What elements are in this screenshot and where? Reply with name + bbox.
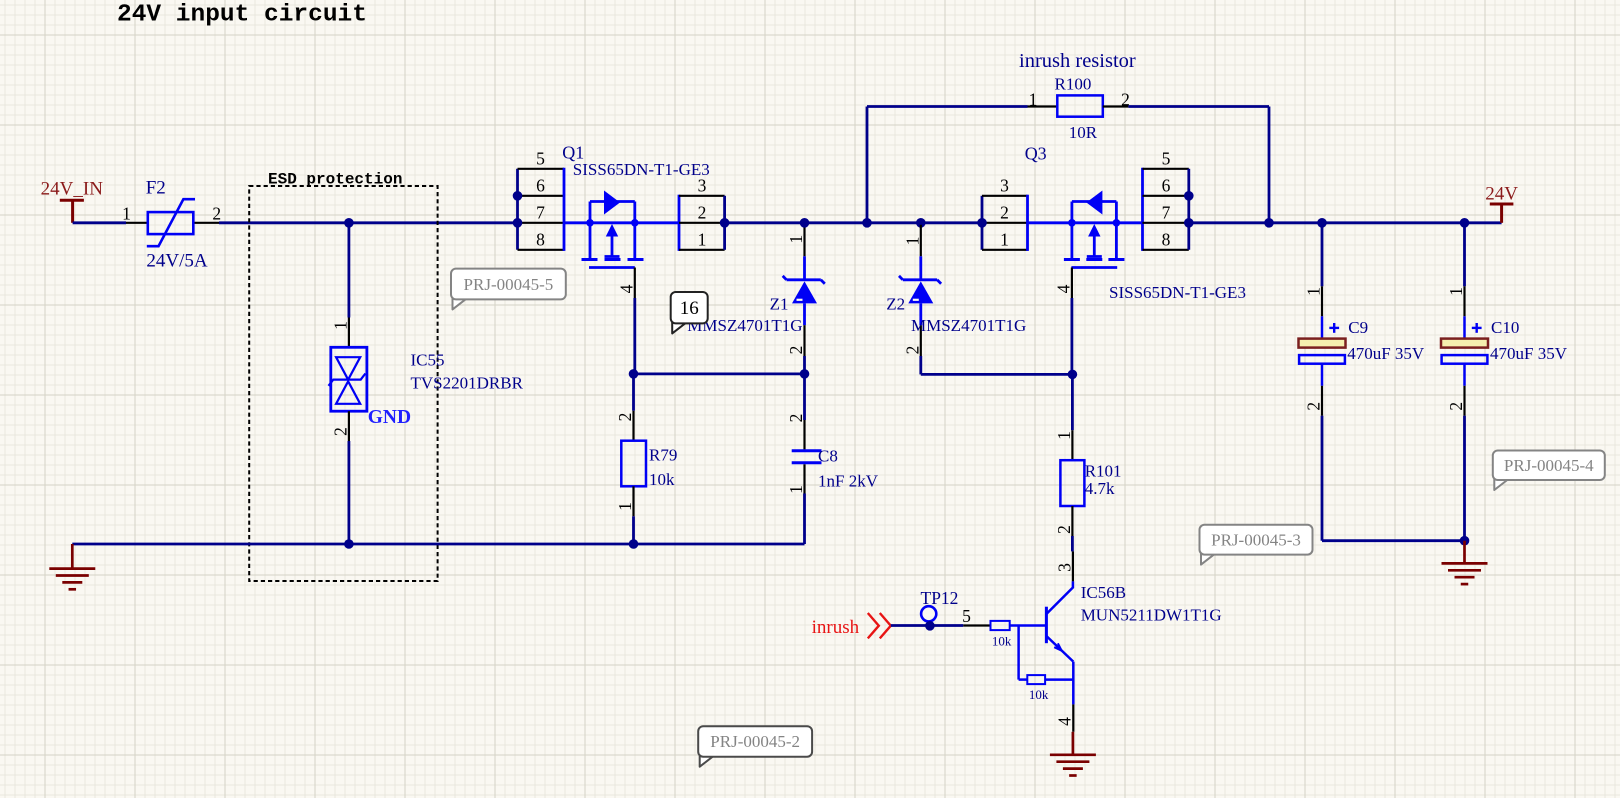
svg-text:IC55: IC55 [411, 350, 445, 369]
positive plate [1321, 316, 1324, 338]
svg-text:inrush resistor: inrush resistor [1019, 50, 1136, 72]
resistor body [1060, 460, 1084, 506]
wire [73, 221, 126, 224]
svg-text:6: 6 [1162, 176, 1171, 196]
pin 2 [1463, 364, 1466, 386]
svg-text:2: 2 [1304, 402, 1324, 411]
svg-text:1: 1 [1054, 431, 1074, 440]
pin 1 [1071, 430, 1073, 460]
anode triangle [908, 281, 933, 303]
port inrush [812, 613, 891, 638]
callout PRJ-00045-5 [451, 269, 566, 310]
svg-text:SISS65DN-T1-GE3: SISS65DN-T1-GE3 [1109, 283, 1246, 302]
wire [1322, 539, 1465, 542]
svg-text:2: 2 [698, 203, 707, 223]
svg-text:24V input circuit: 24V input circuit [117, 2, 367, 29]
pin 4 (emitter) [1072, 704, 1074, 731]
wire [1128, 105, 1269, 108]
svg-text:1: 1 [1446, 287, 1466, 296]
junction [800, 369, 810, 379]
ground [49, 544, 95, 589]
wire [72, 543, 804, 546]
svg-text:Q3: Q3 [1025, 143, 1047, 163]
junction [344, 218, 354, 228]
resistor 10k (base) [963, 621, 1046, 630]
pin 6 [1143, 195, 1189, 197]
svg-text:3: 3 [1054, 563, 1074, 572]
callout PRJ-00045-3 [1200, 525, 1313, 565]
pin 5 [1143, 168, 1189, 170]
svg-text:10k: 10k [649, 470, 675, 489]
svg-text:5: 5 [536, 149, 545, 169]
svg-text:MMSZ4701T1G: MMSZ4701T1G [911, 316, 1026, 335]
svg-text:4: 4 [616, 284, 636, 293]
svg-text:2: 2 [212, 203, 221, 223]
collector/base/emitter [1046, 581, 1073, 614]
junction [1460, 536, 1470, 546]
svg-text:5: 5 [1162, 149, 1171, 169]
capacitor C10 [1441, 223, 1488, 416]
junction [629, 369, 639, 379]
junction [344, 539, 354, 549]
svg-text:10k: 10k [1029, 687, 1049, 702]
pin 2 [1071, 506, 1073, 536]
svg-text:16: 16 [680, 298, 699, 319]
pin 2 [982, 222, 1028, 224]
pin 3 (collector) [1072, 551, 1074, 581]
pin 4 (gate) [634, 268, 636, 299]
svg-text:TVS2201DRBR: TVS2201DRBR [411, 374, 524, 393]
transistor Q3 [977, 149, 1193, 299]
svg-text:5: 5 [962, 606, 971, 626]
wire [803, 374, 806, 420]
junction [800, 218, 810, 228]
wire [632, 516, 635, 544]
svg-text:1: 1 [902, 237, 922, 246]
wire [1463, 416, 1466, 541]
svg-text:PRJ-00045-4: PRJ-00045-4 [1504, 456, 1594, 475]
resistor R79 [615, 411, 646, 517]
pin 1 [803, 225, 805, 256]
svg-text:7: 7 [536, 203, 545, 223]
pin 2 [348, 411, 350, 441]
svg-text:IC56B: IC56B [1081, 583, 1126, 602]
svg-text:SISS65DN-T1-GE3: SISS65DN-T1-GE3 [573, 160, 710, 179]
plus mark [1329, 327, 1339, 329]
svg-text:ESD protection: ESD protection [268, 171, 402, 189]
plus mark [1472, 327, 1482, 329]
svg-text:PRJ-00045-5: PRJ-00045-5 [464, 275, 554, 294]
svg-text:C9: C9 [1348, 318, 1368, 337]
svg-text:TP12: TP12 [921, 588, 959, 608]
pin 2 [1321, 364, 1324, 386]
ground [1442, 541, 1488, 584]
svg-text:4: 4 [1054, 717, 1074, 726]
port 24V_IN [41, 179, 104, 223]
wire [347, 441, 350, 544]
svg-text:C8: C8 [818, 447, 838, 466]
pin 3 [982, 195, 1028, 197]
resistor 10k (base-emitter) [1019, 626, 1073, 685]
svg-text:2: 2 [615, 413, 635, 422]
svg-text:4: 4 [1053, 284, 1073, 293]
wire [803, 494, 806, 545]
transistor IC56B [1046, 551, 1074, 731]
wire [632, 374, 635, 411]
wire [919, 356, 922, 374]
negative plate [1299, 355, 1345, 364]
junction [1264, 218, 1274, 228]
pin 3 [679, 195, 725, 197]
wire [1321, 416, 1324, 541]
svg-text:24V: 24V [1485, 184, 1518, 205]
resistor body [621, 441, 646, 487]
callout PRJ-00045-4 [1493, 451, 1605, 491]
svg-text:R100: R100 [1055, 75, 1092, 94]
svg-text:1: 1 [1000, 230, 1009, 250]
wire [1268, 107, 1271, 223]
resistor R100 [1028, 95, 1129, 116]
wire [867, 105, 1028, 108]
positive plate [1463, 316, 1466, 338]
svg-text:2: 2 [1446, 402, 1466, 411]
callout PRJ-00045-2 [698, 726, 812, 767]
pin 2 [919, 303, 922, 325]
svg-text:2: 2 [1054, 525, 1074, 534]
capacitor C8 [786, 414, 822, 494]
diode Z1 [783, 225, 825, 356]
svg-text:10k: 10k [992, 634, 1012, 649]
svg-text:1: 1 [698, 230, 707, 250]
pin 2 [679, 222, 725, 224]
diode Z2 [899, 225, 941, 356]
svg-text:R79: R79 [649, 446, 677, 465]
junction [1317, 218, 1327, 228]
svg-text:10R: 10R [1069, 123, 1098, 142]
pin 2 [632, 411, 634, 441]
pin 2 [803, 303, 806, 325]
svg-text:8: 8 [536, 230, 545, 250]
pin 4 (gate) [1071, 268, 1073, 299]
svg-text:2: 2 [902, 346, 922, 355]
TVS diode IC55 [329, 318, 367, 442]
cathode bar [803, 256, 806, 281]
svg-text:3: 3 [1000, 176, 1009, 196]
pin 1 [632, 486, 634, 516]
svg-text:PRJ-00045-3: PRJ-00045-3 [1211, 530, 1301, 549]
resistor R101 [1054, 430, 1085, 536]
svg-text:F2: F2 [146, 177, 166, 198]
pin 1 [679, 249, 725, 251]
anode triangle [792, 281, 817, 303]
svg-text:24V/5A: 24V/5A [146, 251, 208, 272]
wire [866, 107, 869, 223]
svg-text:2: 2 [786, 346, 806, 355]
wire [1071, 298, 1074, 374]
svg-text:1: 1 [615, 502, 635, 511]
svg-text:MUN5211DW1T1G: MUN5211DW1T1G [1081, 606, 1222, 625]
pin 8 [518, 249, 565, 251]
svg-text:1: 1 [786, 235, 806, 244]
svg-text:PRJ-00045-2: PRJ-00045-2 [710, 732, 800, 751]
negative plate [1442, 355, 1488, 364]
wire [803, 356, 806, 374]
svg-text:1: 1 [786, 485, 806, 494]
wire [1189, 221, 1502, 224]
svg-text:2: 2 [330, 427, 350, 436]
svg-text:470uF 35V: 470uF 35V [1347, 344, 1425, 363]
svg-text:1: 1 [122, 203, 131, 223]
svg-text:4.7k: 4.7k [1085, 479, 1115, 498]
pin 8 [1143, 249, 1189, 251]
svg-text:24V_IN: 24V_IN [41, 179, 104, 200]
pin 1 [348, 318, 350, 348]
junction [862, 218, 872, 228]
junction [916, 218, 926, 228]
pin 1 [982, 249, 1028, 251]
wire [1463, 223, 1466, 286]
svg-text:C10: C10 [1491, 318, 1519, 337]
svg-text:6: 6 [536, 176, 545, 196]
pin 7 [518, 222, 565, 224]
svg-text:R101: R101 [1085, 462, 1122, 481]
pin 1 [920, 225, 922, 256]
TVS body [331, 347, 367, 411]
pin 1 [1321, 286, 1323, 316]
svg-text:Z2: Z2 [886, 295, 905, 314]
svg-text:2: 2 [786, 414, 806, 423]
wire [725, 221, 982, 224]
svg-text:1: 1 [1029, 89, 1038, 109]
svg-text:8: 8 [1162, 230, 1171, 250]
pin 6 [518, 195, 565, 197]
capacitor C9 [1299, 223, 1346, 416]
wire [1071, 536, 1074, 551]
cathode bar [919, 256, 922, 281]
wire [1071, 374, 1074, 430]
junction [1460, 218, 1470, 228]
wire [347, 223, 350, 318]
svg-text:Z1: Z1 [770, 295, 789, 314]
test point TP12 [921, 588, 959, 631]
svg-text:GND: GND [368, 407, 411, 428]
svg-text:inrush: inrush [812, 617, 860, 638]
svg-text:470uF 35V: 470uF 35V [1490, 344, 1568, 363]
wire [219, 221, 518, 224]
fuse F2 [126, 199, 219, 246]
wire [634, 372, 805, 375]
wire [891, 624, 963, 627]
svg-text:2: 2 [1000, 203, 1009, 223]
svg-text:1: 1 [330, 321, 350, 330]
ESD protection box [249, 171, 437, 582]
svg-text:1: 1 [1304, 287, 1324, 296]
svg-text:7: 7 [1162, 203, 1171, 223]
wire [1321, 223, 1324, 286]
svg-text:1nF 2kV: 1nF 2kV [818, 471, 879, 490]
transistor Q1 [513, 149, 730, 299]
callout 16 [671, 292, 708, 333]
ground [1050, 732, 1096, 776]
pin 5 [518, 168, 565, 170]
junction [629, 539, 639, 549]
junction [1068, 370, 1078, 380]
port 24V [1485, 184, 1518, 223]
pin 1 [1463, 286, 1465, 316]
pin 7 [1143, 222, 1189, 224]
wire [633, 298, 636, 374]
